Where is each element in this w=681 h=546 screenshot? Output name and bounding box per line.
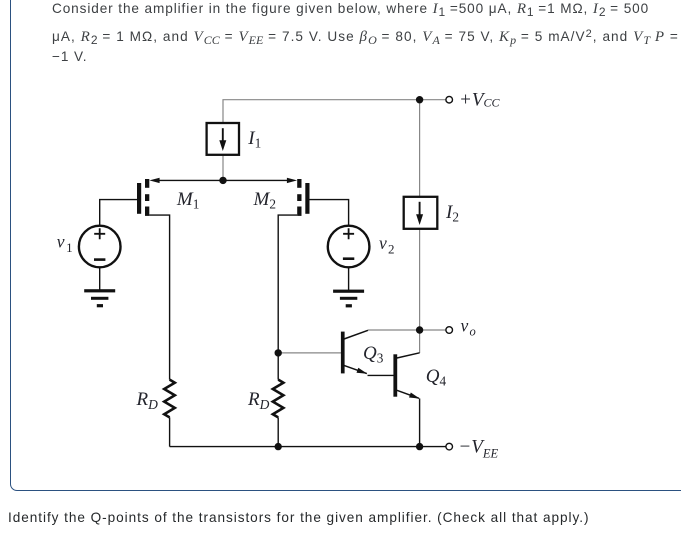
svg-text:+VCC: +VCC bbox=[459, 89, 500, 110]
wire v2 to ground bbox=[348, 267, 350, 290]
wire I2 box to vo node bbox=[419, 229, 421, 330]
svg-text:M2: M2 bbox=[253, 189, 276, 212]
svg-text:RD: RD bbox=[136, 389, 159, 412]
current source I1 bbox=[207, 123, 239, 155]
current source I2 bbox=[404, 197, 438, 229]
wire vo node to vo terminal bbox=[420, 329, 446, 331]
wire M1 gate lead bbox=[100, 200, 137, 226]
wire source rail with arrows into M1 and M2 sources bbox=[149, 178, 297, 183]
wire +VCC node to terminal bbox=[420, 99, 446, 101]
wire RD left to bottom rail bbox=[169, 417, 171, 446]
wire v1 to ground bbox=[99, 267, 101, 290]
problem statement line 2 bbox=[52, 29, 679, 46]
svg-text:I2: I2 bbox=[445, 202, 459, 225]
wire Q3 emitter to Q4 base bbox=[368, 374, 394, 376]
node bottom right junction bbox=[416, 443, 423, 450]
svg-text:v2: v2 bbox=[379, 233, 394, 256]
terminal +VCC bbox=[446, 96, 453, 103]
wire M1 drain to RD left bbox=[149, 215, 169, 380]
svg-text:M1: M1 bbox=[176, 189, 199, 212]
svg-text:−VEE: −VEE bbox=[458, 436, 498, 460]
terminal vo bbox=[446, 327, 453, 334]
transistor M2 bbox=[297, 179, 309, 216]
wire Q3 base rail bbox=[278, 352, 341, 354]
node Q3 base junction bbox=[275, 349, 282, 356]
svg-text:Q3: Q3 bbox=[363, 343, 384, 366]
node vo junction bbox=[416, 326, 423, 333]
wire top rail from above I1 to +VCC node bbox=[223, 100, 420, 123]
svg-text:Q4: Q4 bbox=[426, 366, 447, 389]
node +VCC junction bbox=[416, 96, 423, 103]
svg-text:RD: RD bbox=[247, 389, 270, 412]
wire right vertical VCC node to I2 box bbox=[419, 100, 421, 197]
ground (v2) bbox=[333, 290, 364, 308]
problem statement line 3 bbox=[52, 49, 87, 64]
wire RD right to bottom rail bbox=[277, 417, 279, 446]
svg-text:v1: v1 bbox=[57, 232, 73, 255]
question text bbox=[8, 510, 589, 525]
source v2 bbox=[328, 226, 370, 268]
svg-text:vo: vo bbox=[461, 316, 476, 339]
source v1 bbox=[79, 226, 121, 268]
svg-text:I1: I1 bbox=[247, 128, 261, 151]
problem statement line 1 bbox=[52, 1, 649, 18]
wire bottom rail bbox=[170, 446, 446, 448]
node bottom left junction bbox=[275, 443, 282, 450]
wire M2 drain down to Q3 base node bbox=[278, 215, 297, 380]
ground (v1) bbox=[84, 289, 115, 307]
resistor RD right bbox=[273, 380, 284, 418]
wire M2 gate lead bbox=[310, 200, 349, 227]
wire I1 box bottom to source node bbox=[222, 155, 224, 180]
terminal -VEE bbox=[446, 443, 453, 450]
wire Q4 emitter down to bottom rail bbox=[419, 399, 421, 447]
wire Q3 collector horizontal to vo node bbox=[368, 329, 420, 331]
transistor Q3 bbox=[341, 330, 368, 373]
resistor RD left bbox=[164, 380, 175, 418]
wire vo node down to Q4 collector bbox=[419, 330, 421, 353]
node S (sources of M1,M2) bbox=[219, 177, 226, 184]
transistor M1 bbox=[137, 179, 149, 216]
transistor Q4 bbox=[393, 353, 419, 399]
